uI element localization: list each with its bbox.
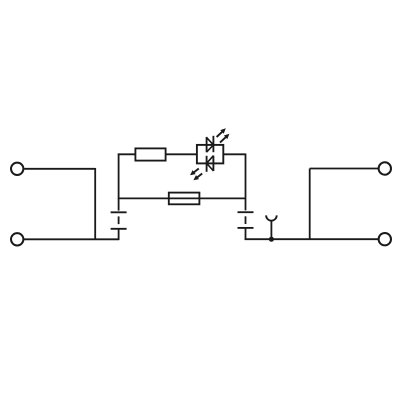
LED body box bbox=[197, 145, 223, 164]
fuse F bbox=[169, 193, 200, 205]
junction dot bbox=[269, 237, 274, 242]
LED emission arrow lower-left 1 bbox=[190, 169, 199, 176]
wire left branch vertical lower bbox=[118, 229, 120, 240]
fuse rail wire bbox=[118, 197, 246, 199]
disconnect left dash bbox=[118, 216, 120, 224]
terminal circle bottom-right bbox=[379, 233, 391, 245]
socket stem bbox=[270, 220, 272, 239]
wire left vertical bbox=[94, 168, 96, 239]
disconnect right dash bbox=[245, 216, 247, 224]
disconnect left bar 1 bbox=[111, 211, 127, 213]
LED D1 cathode bar bbox=[212, 136, 214, 152]
socket cup bbox=[266, 215, 277, 220]
wire top-right horizontal bbox=[310, 168, 379, 170]
resistor R bbox=[135, 148, 165, 160]
wire right branch vertical upper bbox=[245, 154, 247, 211]
LED D2 cathode bar bbox=[206, 156, 208, 172]
wire top-left horizontal bbox=[24, 168, 95, 170]
LED emission arrow lower-left 2 bbox=[193, 174, 202, 181]
wire top rail mid bbox=[166, 153, 197, 155]
wire top rail right bbox=[223, 153, 245, 155]
disconnect right bar 1 bbox=[238, 211, 254, 213]
disconnect left bar 2 bbox=[111, 228, 127, 230]
wire right vertical bbox=[309, 169, 311, 240]
wire bottom rail right bbox=[245, 238, 379, 240]
terminal circle top-left bbox=[11, 163, 23, 175]
LED D1 anode line bbox=[206, 137, 208, 152]
LED D2 triangle bbox=[207, 156, 214, 171]
wire right branch vertical lower bbox=[245, 228, 247, 240]
LED D2 anode line bbox=[212, 156, 214, 172]
LED emission arrow upper-right 1 bbox=[217, 128, 226, 137]
wire bottom-left horizontal bbox=[24, 238, 119, 240]
terminal circle top-right bbox=[379, 162, 391, 174]
terminal circle bottom-left bbox=[11, 233, 23, 245]
wire left branch vertical upper bbox=[118, 154, 120, 211]
LED emission arrow upper-right 2 bbox=[220, 134, 229, 143]
wire top rail left bbox=[118, 153, 136, 155]
LED D1 triangle bbox=[207, 138, 214, 153]
disconnect right bar 2 bbox=[238, 227, 254, 229]
